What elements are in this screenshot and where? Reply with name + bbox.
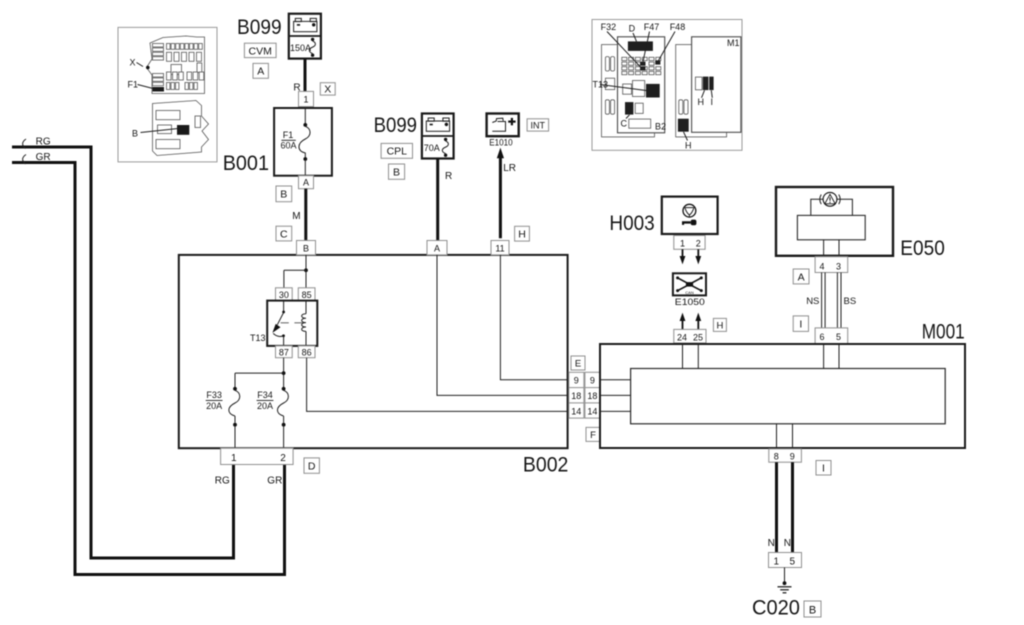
relay T13 location (black) <box>646 84 660 98</box>
svg-text:H: H <box>698 97 705 107</box>
svg-text:18: 18 <box>571 391 581 401</box>
svg-text:E1050: E1050 <box>675 297 705 307</box>
wire M <box>292 189 306 241</box>
pin B of B002 <box>297 241 316 255</box>
pins 8 9 of M001 bottom <box>769 449 802 462</box>
wires pins 24 25 into M001 <box>682 343 684 369</box>
svg-text:B099: B099 <box>237 16 282 39</box>
svg-text:F33: F33 <box>206 390 222 400</box>
svg-text:9: 9 <box>574 376 579 386</box>
pins 4 3 of E050 <box>815 257 848 273</box>
wire BS (twisted pair) <box>837 273 856 328</box>
svg-text:RG: RG <box>215 475 230 486</box>
wires pins 6 5 into M001 <box>823 344 825 369</box>
pins 1 2 of B002 bottom <box>221 448 294 464</box>
svg-text:14: 14 <box>571 406 581 416</box>
svg-text:87: 87 <box>279 347 289 357</box>
wire RG (left loop) <box>12 137 234 558</box>
fuse F33 20A <box>206 387 240 448</box>
connector H <box>713 318 726 331</box>
svg-text:H: H <box>716 320 723 331</box>
wire arrows H003 to E1050 <box>680 249 702 264</box>
pin 11 of B002 <box>491 241 509 255</box>
pins 9 18 14 (B002 side) <box>569 372 584 418</box>
wire arrows pins 24 25 to E1050 <box>680 313 702 330</box>
pins 6 5 of M001 <box>815 328 848 344</box>
connector X <box>320 83 335 96</box>
connector E <box>571 356 585 370</box>
svg-text:8: 8 <box>774 452 779 462</box>
svg-text:F1: F1 <box>128 80 139 90</box>
svg-text:C020: C020 <box>752 597 800 620</box>
svg-text:70A: 70A <box>424 143 440 153</box>
svg-text:9: 9 <box>790 452 795 462</box>
wire pin A to pin 18 <box>437 255 569 396</box>
svg-text:B: B <box>280 189 287 201</box>
connector A <box>253 63 268 78</box>
svg-text:20A: 20A <box>206 401 222 411</box>
svg-text:1: 1 <box>680 239 685 249</box>
ground C020 <box>778 568 792 593</box>
svg-text:2: 2 <box>696 239 701 249</box>
wire N (pin 9) <box>784 462 793 552</box>
svg-text:I: I <box>822 463 825 475</box>
pin 1 of B001 <box>299 91 314 106</box>
fuse F47 location (black) <box>640 62 645 66</box>
code INT <box>527 119 549 131</box>
wire pin 11 to pin 9 <box>500 255 568 380</box>
fuse F48 location (black) <box>655 61 660 65</box>
svg-text:M1: M1 <box>727 38 740 48</box>
connector B <box>389 164 405 179</box>
fusebox B001 <box>274 108 332 176</box>
connector I location (black) <box>709 77 713 91</box>
svg-text:85: 85 <box>302 290 312 300</box>
svg-text:86: 86 <box>302 347 312 357</box>
svg-text:60A: 60A <box>280 140 296 150</box>
svg-text:E1010: E1010 <box>489 138 512 148</box>
relay T13 pins 87 86 <box>276 346 316 358</box>
connector D <box>304 458 319 473</box>
svg-text:1: 1 <box>774 557 780 568</box>
svg-text:R: R <box>445 171 452 182</box>
fuse grid <box>622 57 661 74</box>
svg-text:B002: B002 <box>523 454 569 477</box>
svg-text:F34: F34 <box>257 390 273 400</box>
wire R <box>293 59 305 94</box>
code CVM <box>244 43 276 57</box>
svg-text:F: F <box>590 430 596 441</box>
connector B <box>804 601 821 617</box>
wire 87 to fuses, node <box>235 358 286 389</box>
svg-text:B001: B001 <box>223 152 269 175</box>
right panel with M1 <box>676 45 727 137</box>
svg-text:INT: INT <box>531 120 546 130</box>
svg-text:150A: 150A <box>290 43 311 53</box>
wire pin 86 to pin 14 <box>307 358 569 412</box>
connector C location (black) <box>625 102 633 115</box>
fuse F1 60A inside B001 <box>280 108 310 176</box>
svg-text:25: 25 <box>693 332 703 342</box>
svg-text:2: 2 <box>280 453 286 464</box>
connector A <box>793 269 809 284</box>
connector location view <box>153 101 209 156</box>
svg-text:E: E <box>575 359 581 370</box>
svg-text:5: 5 <box>790 557 796 568</box>
svg-text:3: 3 <box>836 261 841 271</box>
connector I <box>793 316 808 332</box>
connector F <box>586 427 600 441</box>
svg-text:CAN: CAN <box>685 290 694 295</box>
svg-text:11: 11 <box>495 244 504 254</box>
code CPL <box>381 143 412 158</box>
svg-text:B: B <box>809 604 816 616</box>
svg-text:F1: F1 <box>283 130 294 140</box>
svg-text:E050: E050 <box>900 237 945 260</box>
body computer M001 <box>600 321 965 449</box>
svg-text:H003: H003 <box>609 212 654 235</box>
svg-text:B099: B099 <box>374 114 417 137</box>
svg-text:5: 5 <box>836 332 841 342</box>
relay D location (black) <box>628 41 653 51</box>
junction unit B002 <box>179 255 569 477</box>
wire N (pin 8) <box>768 462 777 552</box>
svg-text:CVM: CVM <box>249 45 272 57</box>
svg-text:N: N <box>768 538 775 549</box>
svg-text:6: 6 <box>819 332 824 342</box>
svg-text:I: I <box>711 97 714 107</box>
connector I <box>816 461 831 476</box>
fuse F32 location (black) <box>640 66 645 70</box>
wires to pins 8 9 <box>776 424 778 449</box>
svg-text:GR: GR <box>267 475 282 486</box>
svg-text:M001: M001 <box>922 321 965 344</box>
battery B099 (CVM branch) <box>289 14 321 59</box>
pin A of B002 <box>427 241 447 255</box>
svg-text:18: 18 <box>587 391 597 401</box>
svg-text:H: H <box>685 140 692 150</box>
CAN network node E1050 <box>673 273 706 307</box>
svg-text:D: D <box>629 24 636 34</box>
pins 1 2 of H003 <box>674 236 705 250</box>
svg-text:B: B <box>132 129 138 139</box>
svg-text:BS: BS <box>844 296 857 307</box>
svg-text:GR: GR <box>36 152 51 163</box>
inset fusebox detail view top-right <box>592 20 742 151</box>
svg-text:X: X <box>130 58 136 68</box>
svg-text:D: D <box>308 461 316 473</box>
pin A of B001 <box>299 176 314 189</box>
alarm siren E050 <box>776 187 945 260</box>
svg-text:M: M <box>292 211 300 222</box>
pins 24 25 of M001 <box>674 329 706 343</box>
connector H location lower (black) <box>678 119 689 132</box>
wire GR (left loop) <box>12 152 285 574</box>
wire from pin B to relay, node <box>284 255 308 288</box>
svg-text:I: I <box>799 319 802 331</box>
svg-text:CPL: CPL <box>387 146 408 158</box>
svg-text:14: 14 <box>587 406 597 416</box>
svg-text:1: 1 <box>303 94 308 104</box>
svg-text:LR: LR <box>503 163 516 174</box>
svg-text:F32: F32 <box>601 22 617 32</box>
svg-text:B2: B2 <box>655 122 666 132</box>
connector H <box>515 226 530 241</box>
wire LR with arrow to E1010 <box>497 148 516 239</box>
connector B <box>276 186 292 202</box>
svg-text:A: A <box>798 271 805 283</box>
svg-text:X: X <box>324 83 331 95</box>
svg-text:24: 24 <box>677 332 687 342</box>
svg-text:A: A <box>434 244 440 254</box>
horn switch H003 <box>609 197 717 235</box>
svg-text:F47: F47 <box>644 22 660 32</box>
svg-text:C: C <box>621 119 628 129</box>
relay T13 <box>250 301 317 346</box>
wires pins 9 18 14 into M001 <box>600 379 631 381</box>
svg-text:A: A <box>257 66 264 78</box>
svg-text:C: C <box>280 228 288 240</box>
svg-text:RG: RG <box>36 137 51 148</box>
svg-text:A: A <box>303 178 309 188</box>
fuse F1 location (black) <box>153 87 165 92</box>
relay T13 pins 30 85 <box>276 288 316 301</box>
fuse 150A <box>290 38 315 57</box>
connector C <box>276 226 292 241</box>
svg-text:NS: NS <box>806 296 819 307</box>
fuse 70A <box>424 138 449 157</box>
svg-text:20A: 20A <box>257 401 273 411</box>
svg-text:1: 1 <box>231 453 237 464</box>
svg-text:B: B <box>303 244 309 254</box>
wire R <box>438 159 453 241</box>
battery B099 (CPL branch) <box>422 114 454 159</box>
svg-text:9: 9 <box>590 376 595 386</box>
svg-text:4: 4 <box>819 261 824 271</box>
pins 9 18 14 (M001 side) <box>585 372 600 418</box>
svg-text:30: 30 <box>279 290 289 300</box>
wire NS (twisted pair) <box>806 273 825 328</box>
pins 1 5 of C020 <box>769 553 802 568</box>
connector H location (black) <box>703 77 709 91</box>
svg-text:F48: F48 <box>670 22 686 32</box>
svg-text:H: H <box>518 228 526 240</box>
svg-text:N: N <box>784 538 791 549</box>
inset fusebox location view top-left <box>118 27 217 162</box>
svg-text:B: B <box>393 167 400 179</box>
svg-text:T13: T13 <box>250 333 266 343</box>
fuse F34 20A <box>257 387 289 448</box>
battery positive terminal E1010 <box>487 114 519 148</box>
connector B location (black) <box>177 125 189 135</box>
